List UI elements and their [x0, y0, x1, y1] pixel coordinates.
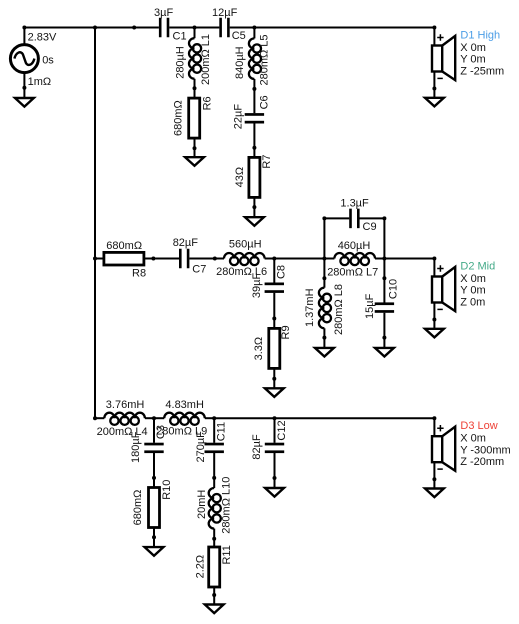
wire C8 branch [273, 259, 275, 283]
wire R9 ground stub [273, 379, 275, 389]
svg-text:C10: C10 [388, 279, 400, 299]
svg-text:X 0m: X 0m [460, 433, 486, 445]
junction bus tap top rail [93, 26, 97, 30]
wire C10 upper lead [383, 278, 385, 302]
svg-text:C8: C8 [275, 265, 287, 279]
wire R10 to ground [153, 528, 155, 538]
junction C8-R9 [272, 317, 276, 321]
wire C1 to C5 [169, 27, 219, 29]
wire R7 to ground [253, 197, 255, 207]
junction node D1 minus [432, 87, 436, 91]
junction source top node [22, 26, 26, 30]
svg-text:270µF: 270µF [195, 431, 207, 463]
junction C8 tap [272, 257, 276, 261]
capacitor C9 [349, 209, 352, 229]
wire L9 junction to D3 [214, 417, 434, 419]
svg-text:680mΩ: 680mΩ [106, 240, 142, 252]
junction C11-L10 [212, 476, 216, 480]
svg-text:680mΩ: 680mΩ [172, 100, 184, 136]
wire R10 ground stub [153, 537, 155, 547]
svg-text:C11: C11 [215, 422, 227, 441]
svg-text:200mΩ L1: 200mΩ L1 [200, 34, 212, 85]
wire D1 ground stub [433, 89, 435, 98]
junction L1 top [193, 26, 197, 30]
inductor L4 [104, 413, 154, 425]
inductor L8 [319, 278, 331, 337]
junction C9 right [382, 216, 386, 220]
svg-text:D1 High: D1 High [460, 29, 500, 41]
svg-text:Z -20mm: Z -20mm [460, 456, 504, 468]
svg-text:R11: R11 [221, 545, 233, 564]
wire C6 to R7 [253, 123, 255, 147]
svg-text:R8: R8 [132, 267, 146, 279]
wire C10 lower lead [383, 313, 385, 338]
svg-text:82µF: 82µF [173, 237, 199, 249]
svg-text:1.3µF: 1.3µF [340, 197, 369, 209]
svg-text:2.83V: 2.83V [28, 32, 57, 44]
wire main bus vertical [94, 28, 96, 419]
wire into R11 [213, 539, 215, 547]
wire C9 right horizontal [360, 217, 385, 219]
junction bus mid rail [93, 257, 97, 261]
junction node D3 minus [432, 477, 436, 481]
wire R6 ground stub [194, 148, 196, 157]
wire V1 to ground [23, 88, 25, 98]
junction C12 bottom [273, 476, 277, 480]
wire D3 return [433, 462, 435, 479]
wire C12 to ground [274, 453, 276, 478]
wire C3 branch [153, 418, 155, 443]
junction C10 bottom [382, 336, 386, 340]
junction C3-R10 [152, 476, 156, 480]
capacitor C5 [219, 18, 222, 38]
driver D1 symbol [432, 34, 455, 80]
svg-text:43Ω: 43Ω [234, 167, 246, 187]
ground R6 [185, 157, 204, 166]
wire L5 to C6 [253, 89, 255, 113]
junction C12 tap [273, 416, 277, 420]
svg-text:1mΩ: 1mΩ [28, 76, 52, 88]
junction L9-C11 node [212, 416, 216, 420]
resistor R7 [249, 157, 260, 197]
svg-text:22µF: 22µF [233, 104, 245, 130]
ground source [15, 98, 34, 107]
capacitor C8 [265, 283, 284, 286]
svg-text:Y 0m: Y 0m [460, 285, 485, 297]
junction L5 top [252, 26, 256, 30]
junction top rail node A [132, 26, 136, 30]
ground R11 [205, 605, 224, 614]
svg-text:82µF: 82µF [251, 434, 263, 460]
wire C3 to R10 [153, 453, 155, 478]
wire D2 feed [433, 259, 435, 277]
capacitor C7 [179, 249, 182, 269]
wire D1 feed [433, 28, 435, 46]
wire C12 branch [274, 418, 276, 443]
wire R9 to ground [273, 368, 275, 378]
wire L6 junction to L7 [274, 258, 334, 260]
svg-text:X 0m: X 0m [460, 273, 486, 285]
capacitor C11 [205, 443, 224, 446]
inductor L7 [334, 253, 384, 265]
wire C11 branch [213, 418, 215, 443]
svg-text:560µH: 560µH [229, 238, 262, 250]
svg-text:680mΩ: 680mΩ [132, 490, 144, 526]
junction node D3 plus [432, 416, 436, 420]
wire C12 ground stub [274, 478, 276, 488]
wire D3 feed [433, 418, 435, 436]
resistor R8 [104, 252, 144, 265]
resistor R10 [149, 488, 160, 528]
ground D1 [425, 98, 444, 107]
svg-text:180µF: 180µF [130, 431, 142, 463]
resistor R9 [269, 328, 280, 368]
svg-text:4.83mH: 4.83mH [165, 399, 204, 411]
wire into R10 [153, 478, 155, 488]
junction L7 right [382, 257, 386, 261]
junction node D1 plus [432, 26, 436, 30]
driver D2 symbol [432, 265, 455, 311]
wire D2 return [433, 303, 435, 320]
wire C8 to R9 [273, 293, 275, 319]
inductor L9 [164, 413, 214, 425]
junction C6-R7 [252, 146, 256, 150]
wire D1 return [433, 72, 435, 89]
wire into R7 [253, 148, 255, 158]
wire C9 left horizontal [324, 217, 349, 219]
wire C9 right riser [383, 218, 385, 258]
inductor L5 [249, 28, 261, 89]
junction L7 left [322, 257, 326, 261]
junction node D2 minus [432, 318, 436, 322]
capacitor C6 [245, 113, 264, 116]
junction C10 top [382, 276, 386, 280]
svg-text:C7: C7 [192, 264, 206, 276]
svg-text:R10: R10 [161, 480, 173, 500]
wire bus to R8 [95, 258, 104, 260]
svg-text:0s: 0s [42, 54, 54, 66]
svg-text:840µH: 840µH [234, 46, 246, 79]
junction V1 bottom [22, 86, 26, 90]
svg-text:Z -25mm: Z -25mm [460, 65, 504, 77]
svg-text:C9: C9 [363, 221, 377, 233]
ground D3 [425, 489, 444, 498]
svg-text:280mΩ L5: 280mΩ L5 [259, 34, 271, 85]
svg-text:280mΩ L10: 280mΩ L10 [220, 477, 232, 534]
junction L4-L9 node [152, 416, 156, 420]
ground C10 [375, 348, 394, 357]
wire C5 to D1 [230, 27, 435, 29]
svg-text:2.2Ω: 2.2Ω [194, 555, 206, 579]
junction bus low rail corner [93, 416, 97, 420]
capacitor C10 [375, 302, 394, 305]
svg-text:12µF: 12µF [212, 7, 238, 19]
junction C7-L6 [213, 257, 217, 261]
junction R10 bottom [152, 535, 156, 539]
inductor L6 [224, 253, 274, 265]
wire R8 to C7 [144, 258, 179, 260]
wire R6 to ground [194, 138, 196, 148]
wire D2 ground stub [433, 320, 435, 329]
ground R10 [145, 547, 164, 556]
wire L8 ground stub [323, 338, 325, 348]
junction L1-R6 [193, 86, 197, 90]
svg-text:280mΩ L8: 280mΩ L8 [333, 284, 345, 335]
svg-text:Y -300mm: Y -300mm [460, 444, 511, 456]
svg-text:1.37mH: 1.37mH [304, 288, 316, 327]
svg-text:C3: C3 [155, 425, 167, 439]
junction R7 bottom [252, 205, 256, 209]
wire L1 to R6 [194, 88, 196, 98]
capacitor C1 [159, 18, 162, 38]
junction C9 left [322, 216, 326, 220]
voltage source V1 [10, 28, 38, 88]
ground D2 [425, 329, 444, 338]
svg-text:3.76mH: 3.76mH [106, 399, 145, 411]
junction L8 bottom [322, 336, 326, 340]
svg-text:R9: R9 [280, 325, 292, 339]
svg-text:C5: C5 [232, 30, 246, 42]
ground L8 [315, 348, 334, 357]
driver D3 symbol [432, 425, 455, 471]
svg-text:460µH: 460µH [338, 240, 371, 252]
svg-text:R6: R6 [201, 96, 213, 110]
wire C10 branch [383, 259, 385, 279]
wire L8 branch [323, 259, 325, 279]
svg-text:15µF: 15µF [364, 293, 376, 319]
svg-text:C6: C6 [259, 95, 271, 109]
ground R7 [245, 217, 264, 226]
wire bus to L4 [95, 417, 104, 419]
wire R7 ground stub [253, 207, 255, 217]
capacitor C12 [265, 443, 284, 446]
svg-text:C12: C12 [276, 420, 288, 440]
inductor L10 [209, 478, 221, 539]
junction L10-R11 [212, 537, 216, 541]
svg-text:280µH: 280µH [174, 46, 186, 79]
wire top rail from source to C1 [24, 27, 159, 29]
svg-text:D2 Mid: D2 Mid [460, 260, 495, 272]
svg-text:X 0m: X 0m [460, 42, 486, 54]
svg-text:3µF: 3µF [154, 7, 173, 19]
junction node D2 plus [432, 257, 436, 261]
svg-text:20mH: 20mH [196, 490, 208, 519]
junction L5-C6 [252, 87, 256, 91]
svg-text:Y 0m: Y 0m [460, 54, 485, 66]
wire L4 junction to L9 [154, 417, 164, 419]
junction R11 bottom [212, 593, 216, 597]
wire R11 to ground [213, 587, 215, 595]
junction R6 bottom [193, 146, 197, 150]
wire C10 ground stub [383, 338, 385, 348]
wire C7 to L6 [189, 258, 224, 260]
ground R9 [265, 388, 284, 397]
resistor R6 [189, 98, 200, 138]
svg-text:R7: R7 [261, 155, 273, 169]
ground C12 [265, 488, 284, 497]
svg-text:C1: C1 [173, 30, 187, 42]
wire into R9 [273, 319, 275, 329]
wire L7 to D2 [384, 258, 434, 260]
junction R8-C7 [151, 257, 155, 261]
capacitor C3 [144, 443, 163, 446]
svg-text:3.3Ω: 3.3Ω [253, 337, 265, 361]
svg-text:280mΩ L7: 280mΩ L7 [327, 267, 378, 279]
resistor R11 [209, 547, 220, 587]
wire R11 ground stub [213, 595, 215, 605]
svg-text:39µF: 39µF [251, 273, 263, 299]
svg-text:Z 0m: Z 0m [460, 296, 485, 308]
inductor L1 [189, 28, 201, 89]
wire C11 to L10 [213, 453, 215, 478]
wire C9 left riser [323, 218, 325, 258]
junction R9 bottom [272, 377, 276, 381]
junction L8 top [322, 276, 326, 280]
svg-text:D3 Low: D3 Low [460, 420, 497, 432]
wire D3 ground stub [433, 479, 435, 488]
